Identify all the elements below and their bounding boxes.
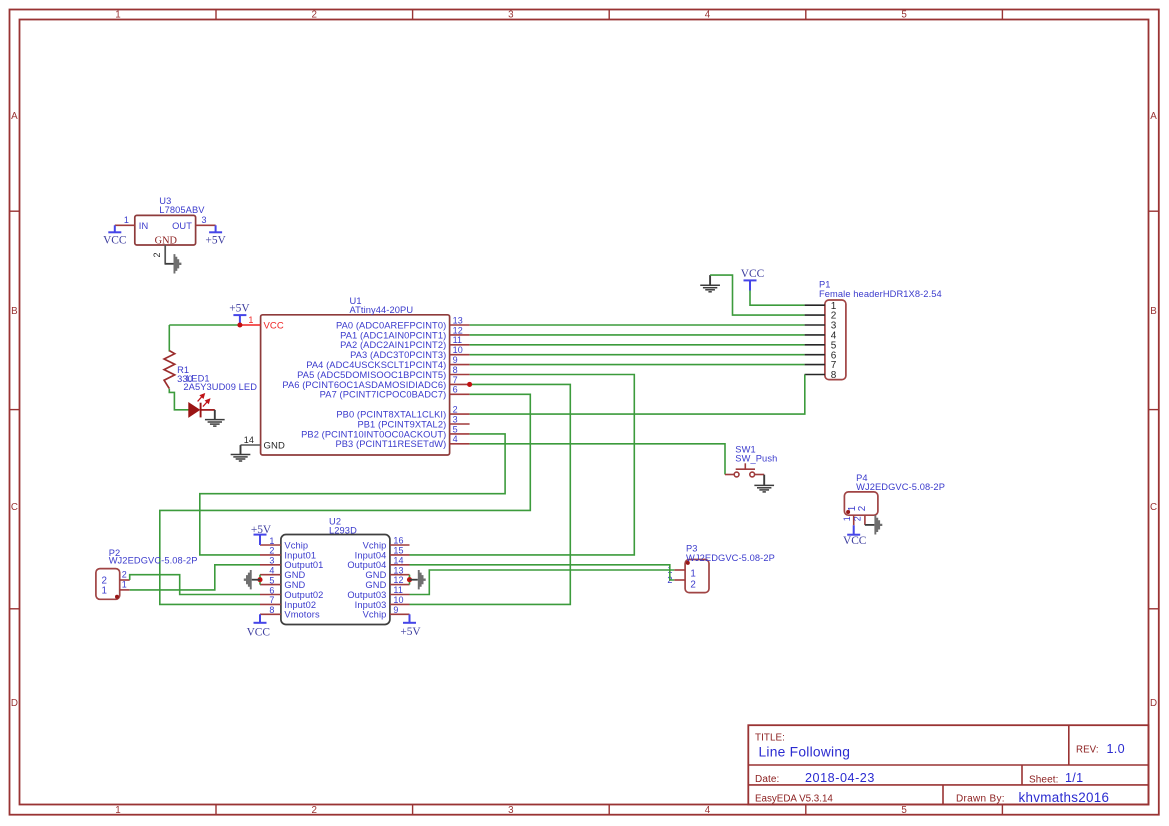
U1 pin 8 PA5 stub — [450, 374, 470, 376]
svg-text:11: 11 — [453, 335, 463, 345]
svg-text:6: 6 — [269, 585, 274, 595]
svg-text:1: 1 — [690, 568, 696, 579]
P1 pin 6 stub — [805, 354, 825, 356]
U1 pin 5 PB2 stub — [450, 433, 470, 435]
svg-text:3: 3 — [453, 414, 458, 424]
svg-text:EasyEDA V5.3.14: EasyEDA V5.3.14 — [755, 794, 833, 805]
svg-text:TITLE:: TITLE: — [755, 733, 785, 744]
svg-text:B: B — [1150, 306, 1157, 317]
wire R1 top vertical — [168, 325, 170, 352]
U1 pin 11 PA2 stub — [450, 344, 470, 346]
wire joining U2 GND pins 12 and 13 — [409, 575, 411, 585]
svg-text:GND: GND — [264, 440, 285, 451]
power flag +5V at U1 pin 1 — [233, 315, 246, 325]
svg-text:5: 5 — [453, 424, 458, 434]
svg-text:+5V: +5V — [205, 235, 226, 247]
svg-text:11: 11 — [393, 585, 403, 595]
svg-text:1.0: 1.0 — [1107, 742, 1125, 756]
svg-text:PB1 (PCINT9XTAL2): PB1 (PCINT9XTAL2) — [357, 419, 446, 429]
ground symbol below LED1 — [205, 410, 225, 426]
svg-text:D: D — [1150, 698, 1157, 709]
svg-text:2: 2 — [853, 516, 863, 521]
wire PA4 to P1 pin7 — [470, 364, 805, 366]
svg-text:GND: GND — [155, 235, 178, 246]
U2 pin 12 GND stub — [390, 584, 410, 586]
svg-text:5: 5 — [901, 10, 907, 21]
U1 pin 1 VCC stub — [240, 324, 261, 326]
ground symbol near P1 — [700, 275, 720, 292]
svg-text:6: 6 — [453, 385, 458, 395]
svg-text:PB3 (PCINT11RESETdW): PB3 (PCINT11RESETdW) — [335, 439, 446, 449]
U1 pin 14 GND stub — [241, 444, 261, 446]
junction dot at U1 pin 1 — [237, 322, 242, 327]
svg-text:PA0 (ADC0AREFPCINT0): PA0 (ADC0AREFPCINT0) — [336, 320, 446, 330]
svg-text:13: 13 — [453, 315, 463, 325]
svg-text:2: 2 — [312, 805, 318, 816]
svg-text:+5V: +5V — [229, 303, 250, 315]
power flag VCC at U3 input — [108, 225, 121, 232]
svg-text:SW_Push: SW_Push — [735, 453, 777, 463]
svg-text:PB2 (PCINT10INT0OC0ACKOUT): PB2 (PCINT10INT0OC0ACKOUT) — [301, 429, 446, 439]
power flag +5V at U2 pin 9 — [403, 614, 416, 623]
svg-text:1: 1 — [269, 536, 274, 546]
svg-text:C: C — [11, 502, 18, 513]
svg-text:PA3 (ADC3T0PCINT3): PA3 (ADC3T0PCINT3) — [350, 350, 446, 360]
svg-text:7: 7 — [453, 375, 458, 385]
wire PA2 to P1 pin5 — [470, 344, 805, 346]
svg-text:Vchip: Vchip — [284, 540, 308, 550]
connector P2 body — [96, 569, 120, 600]
P1 pin 5 stub — [805, 344, 825, 346]
svg-text:13: 13 — [393, 565, 403, 575]
wire PB2 to U2 Input01 — [200, 434, 505, 555]
svg-text:Female headerHDR1X8-2.54: Female headerHDR1X8-2.54 — [819, 289, 942, 299]
P3 pin 1 marker dot — [686, 561, 690, 565]
P2 pin 2 stub — [120, 579, 130, 581]
power flag VCC at U2 pin 8 — [254, 614, 267, 623]
svg-text:Line Following: Line Following — [759, 744, 851, 759]
svg-text:L7805ABV: L7805ABV — [159, 205, 205, 215]
svg-text:8: 8 — [453, 365, 458, 375]
svg-text:VCC: VCC — [843, 535, 866, 547]
svg-text:8: 8 — [269, 605, 274, 615]
svg-text:3: 3 — [202, 215, 207, 225]
svg-text:Drawn By:: Drawn By: — [956, 794, 1005, 805]
svg-text:Output03: Output03 — [347, 590, 386, 600]
svg-text:REV:: REV: — [1076, 744, 1099, 755]
svg-text:14: 14 — [244, 435, 254, 445]
ground symbol at U1 pin 14 — [231, 445, 251, 461]
svg-text:Input01: Input01 — [284, 550, 316, 560]
U2 pin 6 Output02 stub — [260, 594, 281, 596]
svg-text:8: 8 — [831, 370, 837, 381]
svg-text:2: 2 — [312, 10, 318, 21]
U1 pin 2 PB0 stub — [450, 413, 470, 415]
P4 pin 2 stub — [864, 515, 866, 525]
wire PB0 to P1 pin 8 — [470, 375, 805, 415]
resistor R1 zigzag — [164, 351, 175, 389]
svg-text:12: 12 — [393, 575, 403, 585]
LED1 emission arrows — [198, 394, 210, 407]
svg-text:WJ2EDGVC-5.08-2P: WJ2EDGVC-5.08-2P — [686, 553, 775, 563]
U2 pin 11 Output03 stub — [390, 594, 410, 596]
svg-text:Date:: Date: — [755, 774, 779, 785]
wire PA5 to U2 Input04 — [410, 375, 635, 555]
U1 pin 4 PB3 stub — [450, 443, 470, 445]
P2 pin 1 marker dot — [115, 595, 119, 599]
svg-text:WJ2EDGVC-5.08-2P: WJ2EDGVC-5.08-2P — [856, 482, 945, 492]
P4 pin 1 stub — [853, 515, 855, 525]
svg-text:7: 7 — [269, 595, 274, 605]
connector P1 body — [825, 300, 846, 380]
svg-text:2: 2 — [453, 405, 458, 415]
U2 pin 8 Vmotors stub — [260, 613, 281, 615]
U2 pin 1 Vchip stub — [260, 544, 281, 546]
svg-text:GND: GND — [284, 570, 305, 580]
svg-text:1: 1 — [124, 215, 129, 225]
svg-text:L293D: L293D — [329, 525, 357, 535]
U2 pin 10 Input03 stub — [390, 603, 410, 605]
mcu U1 body — [261, 315, 450, 455]
U1 pin 7 PA6 stub — [450, 383, 470, 385]
wire PA1 to P1 pin4 — [470, 334, 805, 336]
svg-text:1: 1 — [248, 315, 253, 325]
title block frame — [748, 725, 1148, 804]
svg-text:PB0 (PCINT8XTAL1CLKI): PB0 (PCINT8XTAL1CLKI) — [336, 410, 446, 420]
wire joining U2 GND pins 4 and 5 — [259, 575, 261, 585]
wire VCC to P1 pin 1 — [750, 291, 805, 306]
svg-text:A: A — [11, 111, 18, 122]
LED1 diode symbol — [189, 403, 215, 418]
svg-text:10: 10 — [453, 345, 463, 355]
wire P2 pin 1 to U2 Output01 — [130, 565, 260, 590]
svg-text:PA5 (ADC5DOMISOOC1BPCINT5): PA5 (ADC5DOMISOOC1BPCINT5) — [297, 370, 446, 380]
power flag VCC at P1 pin 1 — [744, 280, 757, 290]
power flag +5V at U3 output — [209, 225, 222, 232]
svg-text:PA1 (ADC1AIN0PCINT1): PA1 (ADC1AIN0PCINT1) — [340, 330, 446, 340]
svg-text:khvmaths2016: khvmaths2016 — [1019, 790, 1110, 805]
svg-text:Output01: Output01 — [284, 560, 323, 570]
P1 pin 3 stub — [805, 324, 825, 326]
svg-text:1: 1 — [102, 586, 108, 597]
U3 pin 3 OUT stub — [196, 224, 216, 226]
svg-text:WJ2EDGVC-5.08-2P: WJ2EDGVC-5.08-2P — [109, 556, 198, 566]
connector P3 body — [685, 560, 709, 593]
power flag VCC at P4 pin 1 — [847, 525, 860, 534]
wire PA6 to U2 Input03 — [410, 384, 571, 604]
U3 pin 2 GND lead — [165, 245, 166, 264]
ground symbol at U2 pins 4-5 — [244, 570, 260, 589]
svg-text:VCC: VCC — [741, 268, 764, 280]
junction dot at U1 pin 7 — [467, 382, 472, 387]
wire R1 bottom to LED1 anode — [169, 389, 189, 410]
U2 pin 16 Vchip stub — [390, 544, 410, 546]
svg-text:Output04: Output04 — [347, 560, 386, 570]
U2 pin 15 Input04 stub — [390, 554, 410, 556]
svg-text:5: 5 — [269, 575, 274, 585]
svg-text:PA6 (PCINT6OC1ASDAMOSIDIADC6): PA6 (PCINT6OC1ASDAMOSIDIADC6) — [282, 380, 446, 390]
P3 pin 2 stub — [674, 579, 685, 581]
svg-text:2: 2 — [857, 506, 868, 512]
svg-text:C: C — [1150, 502, 1157, 513]
svg-text:2A5Y3UD09 LED: 2A5Y3UD09 LED — [183, 382, 257, 392]
power flag +5V at U2 pin 1 — [254, 535, 267, 545]
svg-text:PA4 (ADC4USCKSCLT1PCINT4): PA4 (ADC4USCKSCLT1PCINT4) — [306, 360, 446, 370]
svg-text:PA7 (PCINT7ICPOC0BADC7): PA7 (PCINT7ICPOC0BADC7) — [320, 390, 447, 400]
U2 pin 9 Vchip stub — [390, 613, 410, 615]
svg-text:4: 4 — [269, 566, 274, 576]
svg-text:4: 4 — [453, 434, 458, 444]
svg-text:Vchip: Vchip — [363, 540, 387, 550]
svg-text:9: 9 — [453, 355, 458, 365]
U2 pin 3 Output01 stub — [260, 564, 281, 566]
P2 pin 1 stub — [120, 589, 130, 591]
svg-text:GND: GND — [365, 580, 386, 590]
U1 pin 6 PA7 stub — [450, 393, 470, 395]
pushbutton SW1 symbol — [725, 463, 764, 477]
svg-text:2018-04-23: 2018-04-23 — [805, 771, 875, 785]
svg-text:1: 1 — [842, 516, 852, 521]
P1 pin 8 stub — [805, 374, 825, 376]
U1 pin 13 PA0 stub — [450, 324, 470, 326]
svg-text:2: 2 — [690, 579, 696, 590]
wire P2 pin 2 to U2 Output02 — [130, 575, 260, 595]
svg-text:Sheet:: Sheet: — [1029, 774, 1059, 785]
svg-text:1: 1 — [122, 580, 127, 590]
P1 pin 7 stub — [805, 364, 825, 366]
svg-text:3: 3 — [508, 805, 514, 816]
wire PA0 to P1 pin3 — [470, 324, 805, 326]
svg-text:1/1: 1/1 — [1065, 771, 1083, 785]
wire PA3 to P1 pin6 — [470, 354, 805, 356]
svg-text:Input03: Input03 — [355, 600, 387, 610]
P4 pin 1 marker dot — [846, 510, 850, 514]
driver U2 body — [281, 535, 390, 625]
svg-text:B: B — [11, 306, 18, 317]
ground symbol at P4 pin 2 — [865, 515, 882, 534]
P3 pin 1 stub — [674, 569, 685, 571]
U2 pin 4 GND stub — [260, 574, 281, 576]
svg-text:12: 12 — [453, 325, 463, 335]
U1 pin 3 PB1 stub — [450, 423, 470, 425]
svg-text:VCC: VCC — [264, 321, 284, 332]
svg-text:A: A — [1150, 111, 1157, 122]
U2 pin 13 GND stub — [390, 574, 410, 576]
svg-text:Vmotors: Vmotors — [284, 610, 320, 620]
svg-text:10: 10 — [393, 595, 403, 605]
svg-text:14: 14 — [393, 555, 403, 565]
svg-text:2: 2 — [269, 546, 274, 556]
svg-text:PA2 (ADC2AIN1PCINT2): PA2 (ADC2AIN1PCINT2) — [340, 340, 446, 350]
U2 pin 14 Output04 stub — [390, 564, 410, 566]
U1 pin 12 PA1 stub — [450, 334, 470, 336]
svg-text:VCC: VCC — [103, 235, 126, 247]
svg-text:+5V: +5V — [251, 524, 272, 536]
P1 pin 1 stub — [805, 304, 825, 306]
svg-text:Input02: Input02 — [284, 600, 316, 610]
U3 pin 1 IN stub — [115, 224, 135, 226]
svg-text:9: 9 — [393, 605, 398, 615]
svg-text:VCC: VCC — [247, 626, 270, 638]
svg-text:15: 15 — [393, 546, 403, 556]
U2 pin 2 Input01 stub — [260, 554, 281, 556]
svg-text:1: 1 — [115, 10, 121, 21]
wire U2 Output03 to P3 pin 1 — [410, 570, 675, 595]
wire ground to P1 pin 2 — [710, 275, 805, 315]
wire PA7 to U2 Input02 — [160, 394, 531, 604]
svg-text:5: 5 — [901, 805, 907, 816]
svg-text:+5V: +5V — [400, 626, 421, 638]
junction dot at U2 right GND — [407, 577, 412, 582]
svg-text:IN: IN — [139, 221, 149, 231]
svg-text:2: 2 — [122, 570, 127, 580]
svg-text:Input04: Input04 — [355, 550, 387, 560]
svg-text:3: 3 — [508, 10, 514, 21]
regulator U3 body — [135, 215, 196, 245]
ground symbol at U3 pin 2 — [165, 254, 181, 273]
svg-text:OUT: OUT — [172, 221, 192, 231]
ground symbol at SW1 — [754, 475, 774, 492]
svg-text:GND: GND — [284, 580, 305, 590]
ground symbol at U2 pins 12-13 — [410, 570, 426, 589]
svg-text:4: 4 — [705, 10, 711, 21]
svg-text:1: 1 — [115, 805, 121, 816]
U1 pin 10 PA3 stub — [450, 354, 470, 356]
wire +5V to R1 top — [169, 324, 240, 326]
P1 pin 2 stub — [805, 314, 825, 316]
svg-text:Vchip: Vchip — [363, 610, 387, 620]
U2 pin 7 Input02 stub — [260, 603, 281, 605]
wire PB3 to SW1 — [470, 444, 725, 475]
P1 pin 4 stub — [805, 334, 825, 336]
svg-text:2: 2 — [152, 252, 162, 257]
svg-text:4: 4 — [705, 805, 711, 816]
svg-text:Output02: Output02 — [284, 590, 323, 600]
svg-text:D: D — [11, 698, 18, 709]
svg-text:16: 16 — [393, 536, 403, 546]
svg-text:3: 3 — [269, 556, 274, 566]
svg-text:ATtiny44-20PU: ATtiny44-20PU — [350, 305, 414, 315]
junction dot at U2 left GND — [257, 577, 262, 582]
svg-text:GND: GND — [365, 570, 386, 580]
U1 pin 9 PA4 stub — [450, 364, 470, 366]
U2 pin 5 GND stub — [260, 584, 281, 586]
connector P4 body — [844, 492, 878, 515]
wire U2 Output04 to P3 pin 2 — [410, 565, 675, 580]
